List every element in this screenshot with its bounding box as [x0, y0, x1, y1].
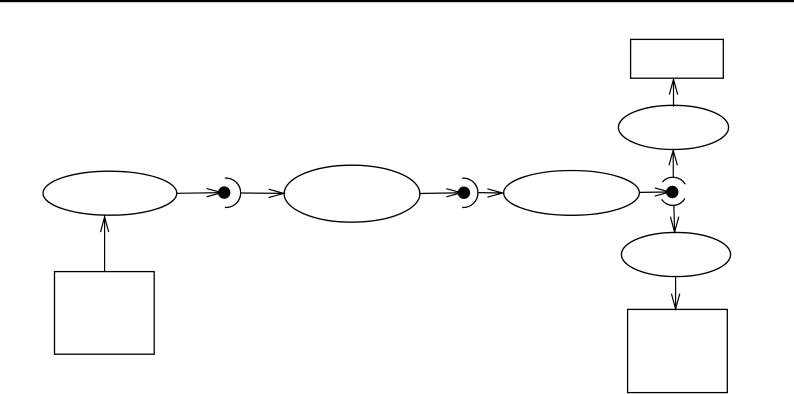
ellipse E2 — [284, 165, 420, 222]
wire A8 shaft (E4 to R1) — [673, 79, 675, 106]
arrowhead A10 — [671, 294, 679, 309]
wire A7 shaft (B3 up to E4) — [672, 150, 674, 177]
top rule — [0, 0, 794, 2]
wire A10 shaft (E5 to R3) — [675, 277, 677, 309]
arrowhead A2 — [207, 189, 222, 197]
socket S3 top — [662, 177, 685, 184]
wire A4 shaft (E2 to B2) — [420, 192, 462, 195]
rectangle R3 bottom right — [628, 309, 728, 392]
wire A3 shaft (S1 to E2) — [241, 192, 284, 194]
arrowhead A3 — [269, 189, 284, 197]
arrowhead A1 — [101, 217, 109, 232]
wire A1 shaft (R2 to E1) — [104, 215, 106, 271]
arrowhead A6 — [655, 188, 670, 196]
socket S1 — [225, 178, 241, 207]
ellipse E4 — [618, 105, 728, 149]
arrowhead A4 — [446, 189, 461, 197]
rectangle R2 bottom left — [55, 272, 155, 355]
wire A6 shaft (E3 to B3) — [639, 191, 670, 193]
wire A5 shaft (S2 to E3) — [478, 192, 503, 194]
ellipse E1 — [43, 171, 177, 215]
ellipse E3 — [504, 171, 640, 216]
arrowhead A9 — [670, 217, 678, 232]
ball B1 — [219, 187, 230, 198]
ball B2 — [458, 187, 469, 198]
socket S3 bottom — [662, 199, 685, 206]
wire A2 shaft (E1 to B1) — [177, 192, 222, 195]
wire A9 shaft (B3 down to E5) — [673, 206, 676, 232]
arrowhead A7 — [669, 150, 677, 165]
arrowhead A5 — [487, 189, 502, 197]
ball B3 — [667, 186, 678, 197]
arrowhead A8 — [669, 79, 677, 94]
rectangle R1 top right — [631, 39, 724, 78]
socket S2 — [462, 178, 478, 207]
ellipse E5 — [621, 232, 730, 276]
